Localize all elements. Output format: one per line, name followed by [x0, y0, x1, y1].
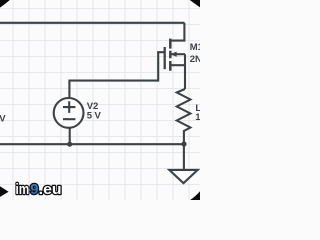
- svg-text:5 V: 5 V: [87, 110, 102, 121]
- svg-text:2N7000: 2N7000: [190, 54, 200, 65]
- wire: gate drive from V2 plus terminal up and right to gate: [69, 52, 164, 98]
- svg-text:9: 9: [30, 181, 38, 198]
- svg-text:.eu: .eu: [39, 181, 62, 198]
- wire: bottom rail from left edge to ground node: [0, 143, 184, 145]
- voltage source V2 5V: [54, 98, 84, 144]
- transistor M1 (NMOS 2N7000): [165, 23, 185, 89]
- junction: resistor to ground node: [181, 141, 186, 146]
- svg-text:1k: 1k: [195, 112, 200, 123]
- svg-text:M1: M1: [190, 42, 200, 53]
- wire: top VDD rail from left edge to drain: [0, 22, 184, 24]
- junction: V2 minus to bottom rail: [67, 142, 72, 147]
- svg-text:V: V: [0, 113, 6, 124]
- ground: [169, 144, 197, 183]
- resistor L1 load: [177, 89, 191, 144]
- svg-text:im: im: [16, 181, 30, 198]
